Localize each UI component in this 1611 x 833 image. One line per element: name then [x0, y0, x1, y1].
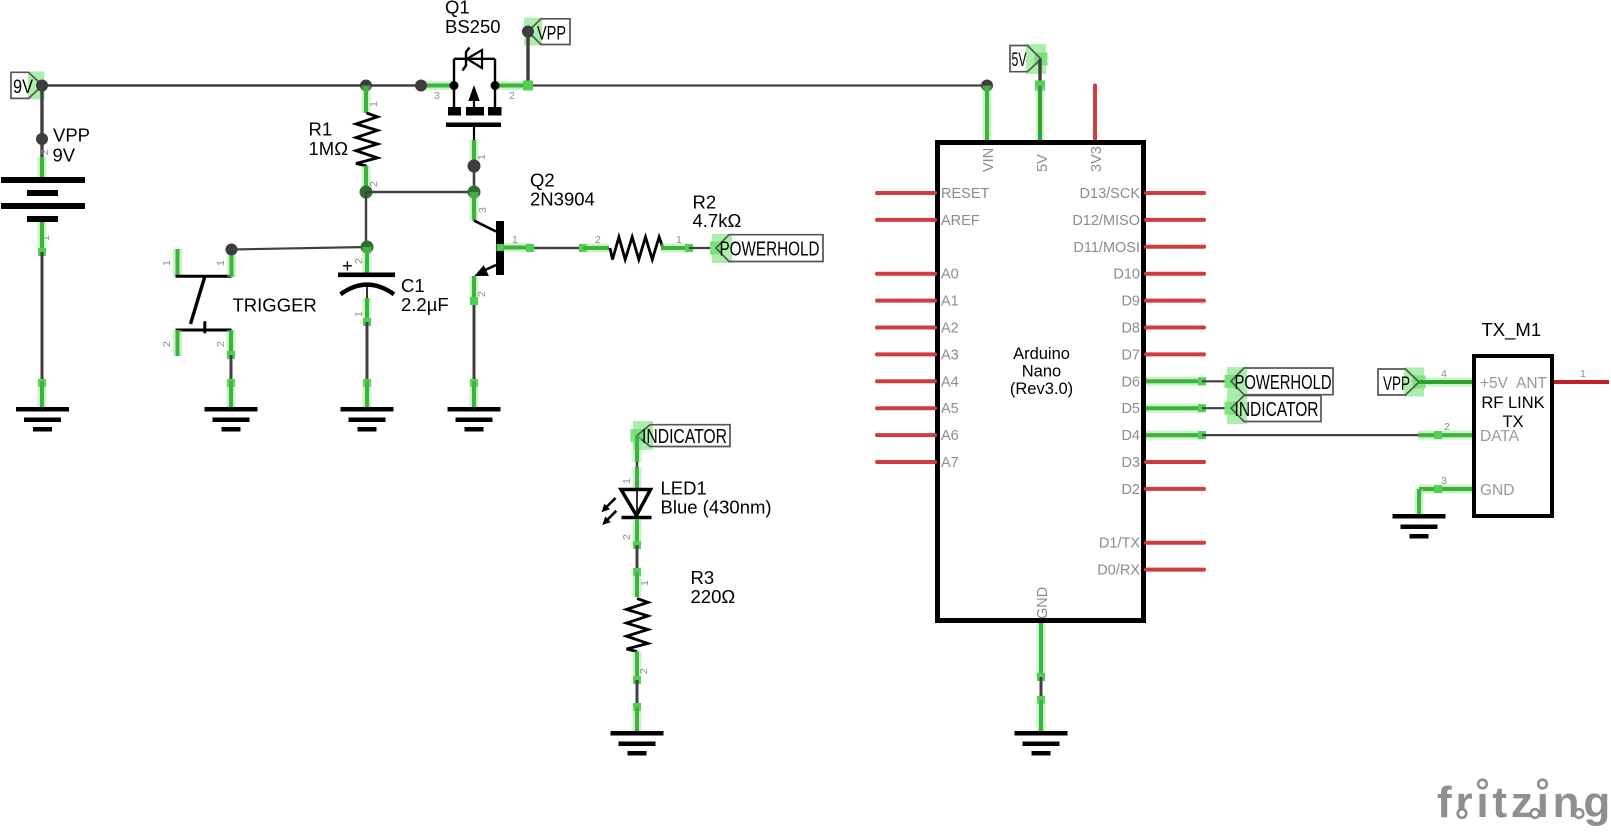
svg-text:9V: 9V	[13, 77, 33, 98]
net flag INDICATOR top	[631, 421, 731, 450]
svg-text:VPP: VPP	[1383, 374, 1410, 395]
ground TX	[1393, 514, 1446, 539]
svg-text:LED1: LED1	[661, 478, 707, 499]
svg-text:DATA: DATA	[1480, 428, 1520, 445]
svg-text:2: 2	[638, 668, 650, 674]
battery BAT1 VPP 9V	[1, 125, 90, 242]
resistor R1 1M	[309, 86, 381, 193]
svg-text:D5: D5	[1121, 401, 1140, 417]
ground battery	[16, 407, 69, 432]
node VPP flag junction	[522, 26, 534, 38]
svg-text:A3: A3	[941, 347, 959, 363]
svg-text:1: 1	[1580, 368, 1586, 380]
pin A3	[877, 347, 959, 363]
svg-text:1: 1	[639, 580, 651, 586]
node 9V junction	[36, 80, 48, 92]
svg-text:2: 2	[353, 258, 365, 264]
pin A5	[877, 401, 959, 417]
svg-text:1: 1	[353, 311, 365, 317]
pin A1	[877, 294, 959, 310]
svg-text:INDICATOR: INDICATOR	[642, 426, 727, 448]
wire main 9V rail	[42, 84, 987, 86]
svg-text:A7: A7	[941, 455, 959, 471]
svg-text:D3: D3	[1121, 455, 1140, 471]
node C1 top junction	[361, 241, 374, 254]
svg-text:AREF: AREF	[941, 213, 980, 229]
pin D13/SCK	[1080, 186, 1204, 202]
wire trigger to C1 node	[232, 247, 368, 250]
resistor R3 220	[627, 567, 736, 680]
svg-text:2: 2	[39, 149, 51, 155]
pin D5 to INDICATOR	[1121, 401, 1231, 417]
LED LED1 Blue 430nm	[602, 478, 772, 546]
svg-text:GND: GND	[1035, 587, 1051, 619]
pin D11/MOSI	[1073, 240, 1204, 256]
svg-text:2: 2	[368, 181, 380, 187]
svg-text:2: 2	[595, 234, 601, 246]
node R1 bottom junction	[360, 186, 373, 199]
svg-text:TRIGGER: TRIGGER	[233, 295, 317, 316]
svg-text:Q2: Q2	[530, 170, 555, 191]
wire battery to ground	[38, 222, 46, 409]
switch TRIGGER	[161, 249, 317, 356]
pin AREF	[877, 213, 980, 229]
node VIN junction	[981, 80, 993, 92]
svg-text:GND: GND	[1480, 482, 1514, 499]
wire LED to R3	[633, 541, 651, 597]
pin D1/TX	[1099, 536, 1204, 552]
svg-text:D11/MOSI: D11/MOSI	[1073, 240, 1140, 256]
svg-text:3V3: 3V3	[1089, 146, 1105, 172]
wire 5V flag to Arduino	[1035, 59, 1045, 140]
svg-text:Nano: Nano	[1022, 363, 1061, 381]
svg-text:POWERHOLD: POWERHOLD	[1235, 372, 1332, 394]
wire Arduino GND to ground	[1037, 623, 1045, 733]
node rail bend junction	[415, 80, 427, 92]
node VPP junction at battery	[36, 133, 48, 145]
svg-text:D2: D2	[1121, 482, 1140, 498]
ground Arduino	[1015, 731, 1068, 756]
svg-text:4: 4	[1441, 368, 1447, 380]
pin D8	[1121, 321, 1204, 337]
svg-text:POWERHOLD: POWERHOLD	[720, 239, 820, 261]
svg-text:Arduino: Arduino	[1013, 345, 1070, 363]
svg-text:Q1: Q1	[445, 0, 470, 18]
svg-text:frıtzıng: frıtzıng	[1437, 778, 1611, 827]
svg-text:RF LINK: RF LINK	[1481, 394, 1544, 412]
svg-text:INDICATOR: INDICATOR	[1235, 399, 1319, 421]
net flag INDICATOR right	[1225, 395, 1322, 424]
wire VIN drop	[983, 86, 992, 141]
wire 9V to battery	[40, 86, 43, 181]
net flag POWERHOLD left	[710, 234, 823, 263]
svg-text:1: 1	[512, 234, 518, 246]
logo fritzing	[1437, 778, 1611, 827]
svg-text:3: 3	[477, 207, 489, 213]
pin A2	[877, 321, 959, 337]
pin D12/MISO	[1072, 213, 1204, 229]
node gate base junction	[468, 186, 481, 199]
transistor Q1 BS250	[434, 0, 515, 127]
ground C1	[341, 407, 394, 432]
pin RESET	[877, 186, 989, 202]
pin GND label	[1035, 587, 1051, 619]
resistor R2 4.7k	[583, 192, 741, 260]
svg-text:A0: A0	[941, 267, 959, 283]
pin A0	[877, 267, 959, 283]
svg-text:D9: D9	[1121, 294, 1140, 310]
pin A4	[877, 374, 959, 390]
wire Q1 gate down	[474, 127, 488, 192]
svg-text:220Ω: 220Ω	[691, 586, 736, 607]
svg-text:D4: D4	[1121, 428, 1140, 444]
svg-text:2: 2	[621, 534, 633, 540]
pin 3V3 label	[1089, 146, 1105, 172]
svg-text:VPP: VPP	[537, 24, 566, 45]
net flag 5V	[1010, 44, 1048, 74]
wire R1 bottom to gate column	[366, 191, 474, 193]
wire indicator flag to LED	[621, 435, 637, 489]
node gate wire joint	[468, 160, 481, 173]
pin D6 to POWERHOLD	[1121, 374, 1231, 390]
svg-text:TX_M1: TX_M1	[1482, 319, 1542, 341]
pin D9	[1121, 294, 1204, 310]
module TX_M1 RF LINK TX	[1474, 319, 1552, 516]
net flag 9V	[11, 72, 45, 100]
svg-text:1: 1	[476, 154, 488, 160]
svg-text:2.2µF: 2.2µF	[401, 294, 449, 315]
svg-text:R1: R1	[309, 119, 333, 140]
svg-text:1: 1	[161, 260, 173, 266]
capacitor C1 2.2uF	[338, 247, 449, 409]
ground R3	[611, 731, 664, 756]
pin TX DATA 2	[1418, 421, 1472, 439]
svg-text:(Rev3.0): (Rev3.0)	[1010, 380, 1073, 398]
net flag VPP top	[524, 18, 570, 46]
svg-text:D13/SCK: D13/SCK	[1080, 186, 1141, 202]
svg-text:A1: A1	[941, 294, 959, 310]
svg-text:2: 2	[509, 90, 515, 102]
IC U1 Arduino Nano	[938, 143, 1144, 621]
svg-text:D10: D10	[1113, 267, 1140, 283]
svg-text:2: 2	[476, 291, 488, 297]
pin TX ANT 1	[1554, 368, 1609, 382]
pin 5V label	[1035, 154, 1051, 172]
svg-text:2N3904: 2N3904	[530, 189, 595, 210]
pin D10	[1113, 267, 1204, 283]
pin A6	[877, 428, 959, 444]
pin D3	[1121, 455, 1204, 471]
svg-text:1: 1	[215, 260, 227, 266]
svg-text:1: 1	[368, 101, 380, 107]
svg-text:D6: D6	[1121, 374, 1140, 390]
pin 3V3 stub	[1093, 86, 1097, 141]
svg-text:5V: 5V	[1012, 50, 1027, 71]
svg-text:VIN: VIN	[981, 148, 997, 172]
wire trigger pin2 to ground	[227, 351, 235, 409]
svg-text:D12/MISO: D12/MISO	[1072, 213, 1140, 229]
svg-text:ANT: ANT	[1516, 375, 1548, 392]
svg-text:3: 3	[1441, 475, 1447, 487]
svg-text:A5: A5	[941, 401, 959, 417]
svg-text:D7: D7	[1121, 347, 1140, 363]
svg-text:A2: A2	[941, 321, 959, 337]
svg-text:D1/TX: D1/TX	[1099, 536, 1140, 552]
pin D2	[1121, 482, 1204, 498]
transistor Q2 2N3904	[470, 170, 595, 410]
svg-text:RESET: RESET	[941, 186, 989, 202]
net flag POWERHOLD right	[1225, 367, 1334, 396]
svg-text:1: 1	[621, 478, 633, 484]
node Q1 pin2	[491, 81, 500, 90]
svg-text:C1: C1	[401, 275, 425, 296]
wire TX GND to ground	[1415, 489, 1424, 516]
ground Q2 emitter	[448, 407, 501, 432]
svg-text:BS250: BS250	[445, 16, 501, 37]
ground trigger	[205, 407, 258, 432]
svg-text:D8: D8	[1121, 321, 1140, 337]
svg-text:2: 2	[215, 341, 227, 347]
node trigger junction	[226, 244, 238, 256]
pin D4 to DATA wire	[1121, 428, 1418, 444]
wire VPP flag to rail	[523, 32, 533, 91]
svg-text:5V: 5V	[1035, 154, 1051, 172]
svg-text:Blue (430nm): Blue (430nm)	[661, 497, 772, 518]
net flag VPP right	[1378, 368, 1426, 397]
svg-text:A4: A4	[941, 374, 959, 390]
pin D7	[1121, 347, 1204, 363]
node rail junction R1	[360, 80, 372, 92]
wire R1 bottom down to C1 node	[365, 192, 367, 247]
svg-text:VPP: VPP	[53, 125, 90, 146]
svg-text:A6: A6	[941, 428, 959, 444]
pin TX GND 3	[1419, 475, 1472, 493]
pin D0/RX	[1097, 563, 1204, 579]
pin A7	[877, 455, 959, 471]
svg-text:R3: R3	[691, 567, 715, 588]
svg-text:D0/RX: D0/RX	[1097, 563, 1140, 579]
svg-text:3: 3	[434, 90, 440, 102]
node Q1 pin3	[450, 81, 459, 90]
svg-text:2: 2	[1444, 421, 1450, 433]
svg-text:+5V: +5V	[1480, 375, 1509, 392]
svg-text:1: 1	[676, 234, 682, 246]
svg-text:4.7kΩ: 4.7kΩ	[693, 210, 742, 231]
pin VIN label	[981, 148, 997, 172]
svg-text:9V: 9V	[53, 145, 76, 166]
svg-text:1MΩ: 1MΩ	[309, 138, 349, 159]
wire VPP flag to TX +5V pin 4	[1419, 368, 1472, 382]
wire R3 to ground	[633, 676, 641, 733]
svg-text:2: 2	[161, 341, 173, 347]
wire Q2 base to R2	[526, 244, 587, 252]
